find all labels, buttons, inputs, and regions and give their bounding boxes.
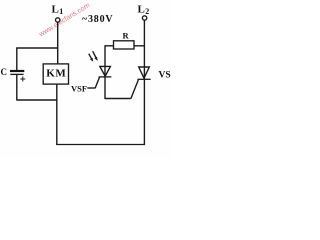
VS gate line: [131, 80, 139, 99]
capacitor C plates: [10, 71, 24, 74]
wire VSF cathode to VS gate horizontal: [105, 98, 131, 100]
svg-text:VS: VS: [159, 71, 171, 81]
label + polarity: [20, 77, 25, 82]
wire VSF cathode down: [104, 77, 106, 99]
label L1: [52, 3, 64, 16]
wire resistor right lead: [134, 45, 145, 47]
label R: [123, 31, 130, 41]
wire capacitor branch horizontal: [16, 47, 58, 49]
label VSF: [71, 84, 87, 94]
svg-text:KM: KM: [46, 68, 66, 80]
photo-thyristor VSF triangle: [100, 66, 111, 76]
watermark www.elecfans.com: [37, 2, 91, 39]
wire to KM bottom lead: [16, 99, 57, 101]
wire VSF gate dash: [87, 87, 95, 89]
svg-text:L1: L1: [52, 3, 64, 16]
wire L2 down to VS anode: [143, 20, 145, 79]
svg-text:R: R: [123, 31, 130, 41]
svg-text:L2: L2: [138, 3, 150, 16]
svg-text:~380V: ~380V: [82, 14, 113, 25]
svg-text:C: C: [1, 67, 8, 77]
terminal L1 circle: [56, 18, 60, 22]
wire L1 down to KM: [57, 22, 59, 64]
thyristor VS triangle: [139, 67, 150, 78]
label L2: [138, 3, 150, 16]
wire down to capacitor top: [16, 48, 18, 71]
svg-text:VSF: VSF: [71, 84, 87, 94]
resistor R box: [114, 41, 135, 49]
wire VS cathode to bottom rail: [143, 80, 145, 146]
label KM: [46, 68, 66, 80]
wire resistor left down to VSF anode: [104, 45, 106, 77]
VSF cathode bar: [99, 76, 112, 78]
wire bottom rail: [56, 144, 145, 146]
label ~380V: [82, 14, 113, 25]
wire resistor left lead: [105, 45, 114, 47]
light arrow 1: [89, 54, 94, 62]
label C: [1, 67, 8, 77]
light arrow 2: [93, 51, 98, 61]
wire KM bottom down: [56, 84, 58, 145]
VS cathode bar: [137, 78, 150, 80]
wire capacitor bottom down: [16, 75, 18, 100]
VSF gate line: [95, 77, 99, 88]
terminal L2 circle: [142, 16, 146, 20]
label VS: [159, 71, 171, 81]
contactor coil KM box: [43, 64, 68, 84]
